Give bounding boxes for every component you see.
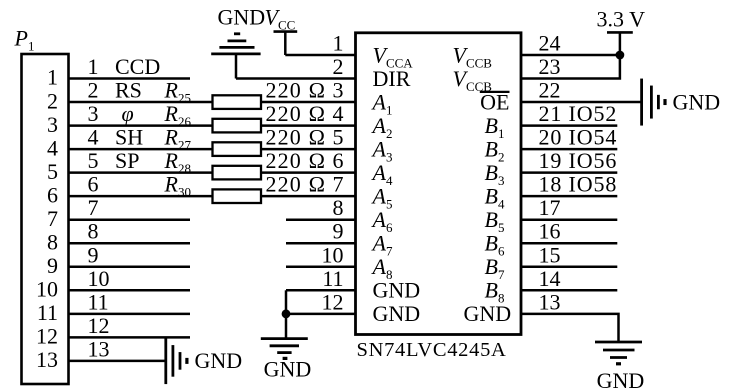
svg-text:11: 11	[322, 266, 343, 291]
svg-text:220 Ω: 220 Ω	[266, 125, 327, 150]
svg-text:DIR: DIR	[373, 66, 411, 91]
svg-text:6: 6	[333, 148, 344, 173]
wire P1 pin 7	[69, 218, 191, 221]
svg-text:2: 2	[88, 78, 99, 103]
svg-text:9: 9	[88, 242, 99, 267]
svg-text:10: 10	[36, 277, 58, 302]
svg-text:14: 14	[539, 266, 561, 291]
wire U1 pin 22 to GND	[521, 101, 642, 104]
svg-text:CCD: CCD	[115, 54, 160, 79]
IC U1 SN74LVC4245A	[356, 33, 522, 335]
wire R30 to U1 pin 7	[261, 195, 356, 198]
svg-text:220 Ω: 220 Ω	[266, 78, 327, 103]
ground GND (top)	[211, 34, 260, 79]
wire P1 pin 10	[69, 289, 191, 292]
svg-text:21 IO52: 21 IO52	[539, 101, 618, 126]
wire U1 pin 10	[286, 266, 356, 269]
wire P1 pin 4	[69, 148, 213, 151]
svg-text:220 Ω: 220 Ω	[266, 172, 327, 197]
svg-text:3: 3	[88, 101, 99, 126]
wire R27 to U1 pin 5	[261, 148, 356, 151]
wire U1 pin 18	[521, 195, 617, 198]
svg-text:GND: GND	[464, 301, 512, 326]
svg-text:6: 6	[47, 182, 58, 207]
svg-text:7: 7	[47, 206, 58, 231]
wire U1 pin 19	[521, 171, 617, 174]
wire U1 pin 11 to ground stem	[285, 290, 288, 338]
ground GND (left, P1 pin 13)	[166, 338, 187, 384]
svg-text:OE: OE	[480, 89, 509, 114]
connector P1	[22, 54, 69, 384]
wire P1 pin 13	[69, 360, 165, 363]
svg-text:11: 11	[88, 289, 109, 314]
svg-text:1: 1	[88, 54, 99, 79]
wire P1 pin 2	[69, 101, 213, 104]
svg-text:2: 2	[333, 54, 344, 79]
svg-text:VCC: VCC	[265, 5, 296, 33]
wire P1 pin 6	[69, 195, 213, 198]
svg-text:9: 9	[333, 219, 344, 244]
junction dot 3.3 V node	[616, 51, 625, 60]
svg-text:SP: SP	[115, 148, 139, 173]
wire U1 pin 15	[521, 266, 617, 269]
svg-text:GND: GND	[373, 278, 421, 303]
svg-text:24: 24	[539, 31, 561, 56]
svg-text:1: 1	[47, 65, 58, 90]
wire U1 pin 8	[286, 218, 356, 221]
wire U1 pin 9	[286, 242, 356, 245]
wire GND to U1 pin 2 (DIR)	[236, 77, 356, 80]
wire P1 pin 9	[69, 266, 191, 269]
wire P1 pin 8	[69, 242, 191, 245]
svg-text:13: 13	[88, 336, 110, 361]
svg-text:23: 23	[539, 54, 561, 79]
svg-text:220 Ω: 220 Ω	[266, 101, 327, 126]
svg-text:13: 13	[36, 347, 58, 372]
resistor R28	[213, 166, 262, 180]
svg-text:8: 8	[47, 229, 58, 254]
ground GND (right, pin 22)	[642, 79, 665, 126]
svg-text:5: 5	[88, 148, 99, 173]
svg-text:16: 16	[539, 219, 561, 244]
wire R28 to U1 pin 6	[261, 171, 356, 174]
wire R25 to U1 pin 3	[261, 101, 356, 104]
svg-text:15: 15	[539, 242, 561, 267]
svg-text:GND: GND	[373, 301, 421, 326]
wire P1 pin 11	[69, 313, 191, 316]
svg-text:4: 4	[47, 135, 58, 160]
ground GND (below U1)	[261, 339, 308, 359]
wire U1 pin 12	[286, 313, 356, 316]
svg-text:5: 5	[47, 159, 58, 184]
svg-text:12: 12	[88, 313, 110, 338]
svg-text:11: 11	[37, 300, 58, 325]
svg-text:8: 8	[333, 195, 344, 220]
resistor R27	[213, 142, 262, 156]
svg-text:GND: GND	[218, 5, 266, 30]
svg-text:12: 12	[322, 289, 344, 314]
resistor R30	[213, 189, 262, 203]
svg-text:GND: GND	[673, 89, 721, 114]
svg-text:5: 5	[333, 125, 344, 150]
svg-text:19 IO56: 19 IO56	[539, 148, 618, 173]
svg-text:P1: P1	[14, 26, 35, 54]
resistor R26	[213, 119, 262, 133]
svg-text:3: 3	[333, 78, 344, 103]
wire U1 pin 24 to 3.3 V node	[521, 54, 620, 57]
svg-text:9: 9	[47, 253, 58, 278]
wire U1 pin 11	[286, 289, 356, 292]
P1 pin numbers 1-13	[36, 65, 58, 372]
svg-text:SH: SH	[115, 125, 143, 150]
svg-text:GND: GND	[264, 357, 312, 382]
svg-text:10: 10	[322, 242, 344, 267]
wire U1 pin 23 to 3.3 V node	[521, 55, 620, 79]
wire R26 to U1 pin 4	[261, 124, 356, 127]
svg-text:8: 8	[88, 219, 99, 244]
svg-text:220 Ω: 220 Ω	[266, 148, 327, 173]
svg-text:4: 4	[333, 101, 344, 126]
wire U1 pin 16	[521, 242, 617, 245]
svg-text:φ: φ	[122, 101, 134, 126]
resistor R25	[213, 95, 262, 109]
svg-text:6: 6	[88, 172, 99, 197]
svg-text:17: 17	[539, 195, 561, 220]
wire P1 pin 3	[69, 124, 213, 127]
wire U1 pin 21	[521, 124, 617, 127]
svg-text:12: 12	[36, 324, 58, 349]
svg-text:RS: RS	[115, 78, 142, 103]
U1 right pin name OE (active low)	[480, 89, 510, 114]
wire U1 pin 17	[521, 218, 617, 221]
wire U1 pin 14	[521, 289, 617, 292]
svg-text:2: 2	[47, 88, 58, 113]
svg-text:13: 13	[539, 289, 561, 314]
svg-text:7: 7	[88, 195, 99, 220]
svg-text:3: 3	[47, 112, 58, 137]
wire VCC to U1 pin 1	[285, 54, 355, 57]
svg-text:4: 4	[88, 125, 99, 150]
wire P1 pin 12	[69, 336, 191, 339]
svg-text:20 IO54: 20 IO54	[539, 125, 618, 150]
ground GND (bottom right)	[595, 342, 642, 364]
wire P1 pin 5	[69, 171, 213, 174]
power VCC symbol	[274, 32, 298, 55]
junction dot U1 pin 12 / ground	[282, 309, 291, 318]
svg-text:SN74LVC4245A: SN74LVC4245A	[357, 339, 507, 361]
svg-text:18 IO58: 18 IO58	[539, 172, 618, 197]
wire U1 pin 20	[521, 148, 617, 151]
svg-text:22: 22	[539, 78, 561, 103]
wire P1 pin 1	[69, 77, 191, 80]
svg-text:10: 10	[88, 266, 110, 291]
wire U1 pin 13 to ground	[521, 314, 619, 342]
svg-text:7: 7	[333, 172, 344, 197]
svg-text:GND: GND	[195, 348, 243, 373]
svg-text:1: 1	[333, 31, 344, 56]
svg-text:3.3 V: 3.3 V	[597, 7, 646, 32]
power 3.3 V symbol	[607, 32, 633, 55]
svg-text:GND: GND	[597, 368, 645, 392]
